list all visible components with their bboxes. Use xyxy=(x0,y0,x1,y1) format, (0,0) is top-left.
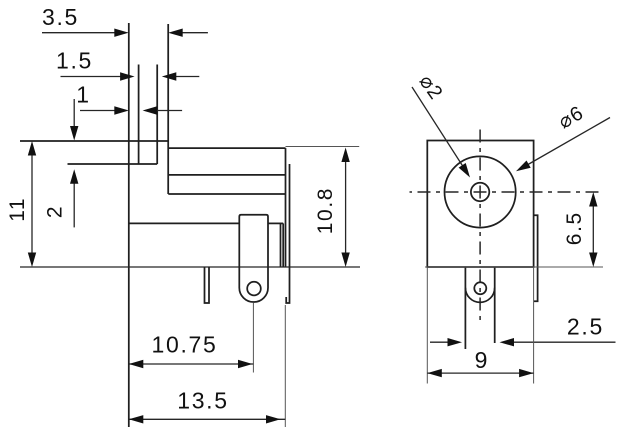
front pin arc xyxy=(465,288,494,303)
barrel circle phi6 xyxy=(445,156,516,227)
dimension 1 right arrow xyxy=(156,110,182,112)
horizontal centerline xyxy=(410,191,604,193)
dimension 13.5 extension line xyxy=(284,305,286,427)
inner block outer edge xyxy=(282,223,284,267)
body lower-right horizontal line xyxy=(268,222,283,224)
body left edge extension line xyxy=(128,23,130,427)
svg-text:10.8: 10.8 xyxy=(314,187,337,234)
leader phi2 xyxy=(412,87,463,167)
dimension 6.5 line xyxy=(592,204,594,255)
lug lever xyxy=(239,215,268,302)
front pin hole xyxy=(474,282,486,294)
rear pin xyxy=(205,267,210,303)
pin slot right line xyxy=(156,65,158,165)
svg-text:6.5: 6.5 xyxy=(563,211,586,245)
front pin left edge xyxy=(464,267,466,349)
dimension 2.5 left arrow xyxy=(430,341,452,343)
body top-left edge xyxy=(20,140,168,142)
base line xyxy=(20,266,360,268)
svg-text:10.75: 10.75 xyxy=(151,332,217,358)
svg-text:9: 9 xyxy=(475,347,490,373)
dimension 9 extension left xyxy=(426,267,428,384)
dimension 3.5 left arrow xyxy=(42,32,116,34)
body front-top extension line xyxy=(167,24,169,194)
svg-text:2: 2 xyxy=(44,205,67,218)
dimension 1.5 right arrow xyxy=(175,76,199,78)
dimension 3.5 right arrow xyxy=(181,32,208,34)
body upper horizontal line xyxy=(168,174,285,176)
body lower-left horizontal line xyxy=(129,222,240,224)
dimension 10.8 line xyxy=(345,159,347,255)
svg-text:3.5: 3.5 xyxy=(42,4,79,30)
dimension 1 left arrow xyxy=(80,110,116,112)
svg-text:13.5: 13.5 xyxy=(177,388,229,414)
body middle horizontal line xyxy=(168,193,285,195)
dimension 9 extension right xyxy=(533,267,535,384)
inner block right edge xyxy=(280,223,282,267)
body top edge xyxy=(168,147,285,149)
dimension 10.75 extension line xyxy=(252,303,254,373)
svg-text:2.5: 2.5 xyxy=(567,314,604,340)
center pin circle phi2 xyxy=(471,183,489,201)
pin slot left line xyxy=(138,65,140,165)
bottom reference line xyxy=(425,266,603,268)
svg-text:1: 1 xyxy=(76,81,91,107)
dimension 2.5 right arrow xyxy=(512,341,616,343)
dimension 1.5 left arrow xyxy=(61,76,127,78)
vertical centerline xyxy=(479,124,481,322)
front flange edge with foot xyxy=(286,164,289,303)
side tab xyxy=(534,215,538,301)
dimension 2 up arrow xyxy=(73,182,75,227)
dimension 2 down arrow xyxy=(73,99,75,128)
svg-text:1.5: 1.5 xyxy=(56,47,93,73)
lug hole xyxy=(247,282,261,296)
leader phi6 xyxy=(528,118,610,165)
dimension 11 line xyxy=(31,152,33,255)
slot bottom reference line xyxy=(68,163,158,165)
body right edge xyxy=(285,148,287,267)
dimension 13.5 line xyxy=(129,418,285,420)
svg-text:11: 11 xyxy=(6,197,29,222)
front pin right edge xyxy=(494,267,496,343)
dimension 9 line xyxy=(427,372,533,374)
dimension 10.8 extension line xyxy=(286,146,360,148)
front square body xyxy=(427,141,533,268)
dimension 10.75 line xyxy=(129,363,254,365)
